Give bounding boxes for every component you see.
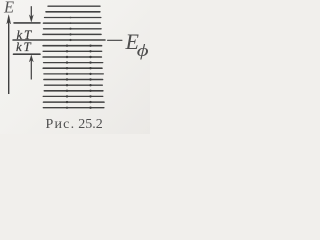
svg-text:ϕ: ϕ [137, 42, 149, 60]
svg-text:25.2: 25.2 [78, 117, 103, 132]
svg-text:E: E [3, 0, 14, 16]
svg-text:kT: kT [16, 40, 32, 54]
svg-text:Рис.: Рис. [46, 117, 76, 132]
